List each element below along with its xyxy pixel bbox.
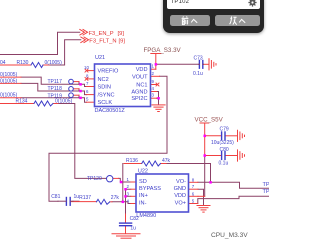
svg-text:CPU_M3.3V: CPU_M3.3V	[211, 232, 248, 239]
svg-text:TP1: TP1	[263, 189, 270, 195]
svg-text:2: 2	[127, 184, 130, 189]
svg-text:4: 4	[152, 86, 155, 91]
svg-text:IN+: IN+	[139, 193, 148, 199]
svg-text:7: 7	[192, 184, 195, 189]
svg-text:TP117: TP117	[48, 79, 63, 85]
svg-text:BYPASS: BYPASS	[139, 186, 161, 192]
svg-text:8: 8	[192, 177, 195, 182]
svg-text:SD: SD	[139, 179, 147, 185]
svg-text:1: 1	[127, 177, 130, 182]
svg-text:TP1: TP1	[263, 182, 270, 188]
svg-text:47k: 47k	[162, 158, 171, 164]
svg-text:3: 3	[152, 93, 155, 98]
svg-text:4: 4	[127, 199, 130, 204]
svg-text:9: 9	[152, 79, 155, 84]
svg-text:F3_FLT_N: F3_FLT_N	[89, 38, 116, 44]
svg-text:C80: C80	[220, 147, 229, 153]
svg-text:R136: R136	[126, 158, 138, 164]
svg-text:VDD: VDD	[174, 193, 186, 199]
svg-text:7: 7	[86, 81, 89, 86]
svg-text:U21: U21	[95, 55, 105, 61]
svg-text:LM4890: LM4890	[136, 213, 156, 219]
svg-text:DAC80501Z: DAC80501Z	[95, 108, 126, 114]
svg-text:0.1u: 0.1u	[193, 71, 203, 77]
svg-text:SPI2C: SPI2C	[131, 96, 147, 102]
svg-text:10u(3225): 10u(3225)	[211, 140, 234, 146]
svg-text:F3_EN_P: F3_EN_P	[89, 31, 114, 37]
svg-text:TP120: TP120	[87, 176, 102, 182]
svg-text:6: 6	[192, 191, 195, 196]
svg-text:[9]: [9]	[118, 31, 125, 37]
svg-text:0(1005): 0(1005)	[0, 92, 18, 98]
svg-text:VREFIO: VREFIO	[98, 69, 119, 75]
svg-text:VO-: VO-	[176, 179, 186, 185]
svg-text:0(1005): 0(1005)	[0, 72, 18, 78]
svg-text:/SYNC: /SYNC	[98, 93, 115, 99]
svg-text:R130: R130	[17, 60, 29, 66]
svg-text:IN-: IN-	[139, 200, 147, 206]
svg-text:1: 1	[152, 64, 155, 69]
svg-text:0.1u: 0.1u	[219, 160, 229, 166]
svg-text:10: 10	[84, 65, 89, 70]
svg-text:04: 04	[0, 60, 6, 66]
svg-text:SDIN: SDIN	[98, 85, 111, 91]
svg-text:6: 6	[86, 89, 89, 94]
svg-text:0(1005): 0(1005)	[0, 79, 18, 85]
svg-text:0(1005): 0(1005)	[45, 60, 63, 66]
svg-text:R134: R134	[16, 99, 28, 105]
svg-text:2: 2	[152, 71, 155, 76]
svg-text:FPGA_S3.3V: FPGA_S3.3V	[144, 47, 182, 54]
svg-text:C73: C73	[194, 55, 203, 61]
svg-text:VOUT: VOUT	[132, 74, 148, 80]
svg-text:3: 3	[127, 191, 130, 196]
svg-text:VDD: VDD	[136, 67, 148, 73]
svg-text:SCLK: SCLK	[98, 100, 113, 106]
svg-text:8: 8	[86, 73, 89, 78]
svg-text:GND: GND	[174, 186, 186, 192]
svg-text:AGND: AGND	[131, 90, 147, 96]
svg-text:C79: C79	[220, 126, 229, 132]
svg-text:27k: 27k	[111, 195, 120, 201]
svg-text:U22: U22	[138, 168, 148, 174]
svg-text:5: 5	[86, 97, 89, 102]
svg-text:1u: 1u	[130, 226, 136, 232]
svg-text:NC1: NC1	[136, 83, 147, 89]
svg-text:TP118: TP118	[48, 86, 63, 92]
svg-text:VCC_S5V: VCC_S5V	[195, 117, 224, 124]
svg-text:NC2: NC2	[98, 77, 109, 83]
svg-text:[9]: [9]	[119, 38, 126, 44]
svg-text:VO+: VO+	[175, 200, 186, 206]
svg-text:C81: C81	[51, 194, 60, 200]
svg-text:R137: R137	[79, 195, 91, 201]
svg-text:5: 5	[192, 199, 195, 204]
svg-text:TP119: TP119	[48, 94, 63, 100]
